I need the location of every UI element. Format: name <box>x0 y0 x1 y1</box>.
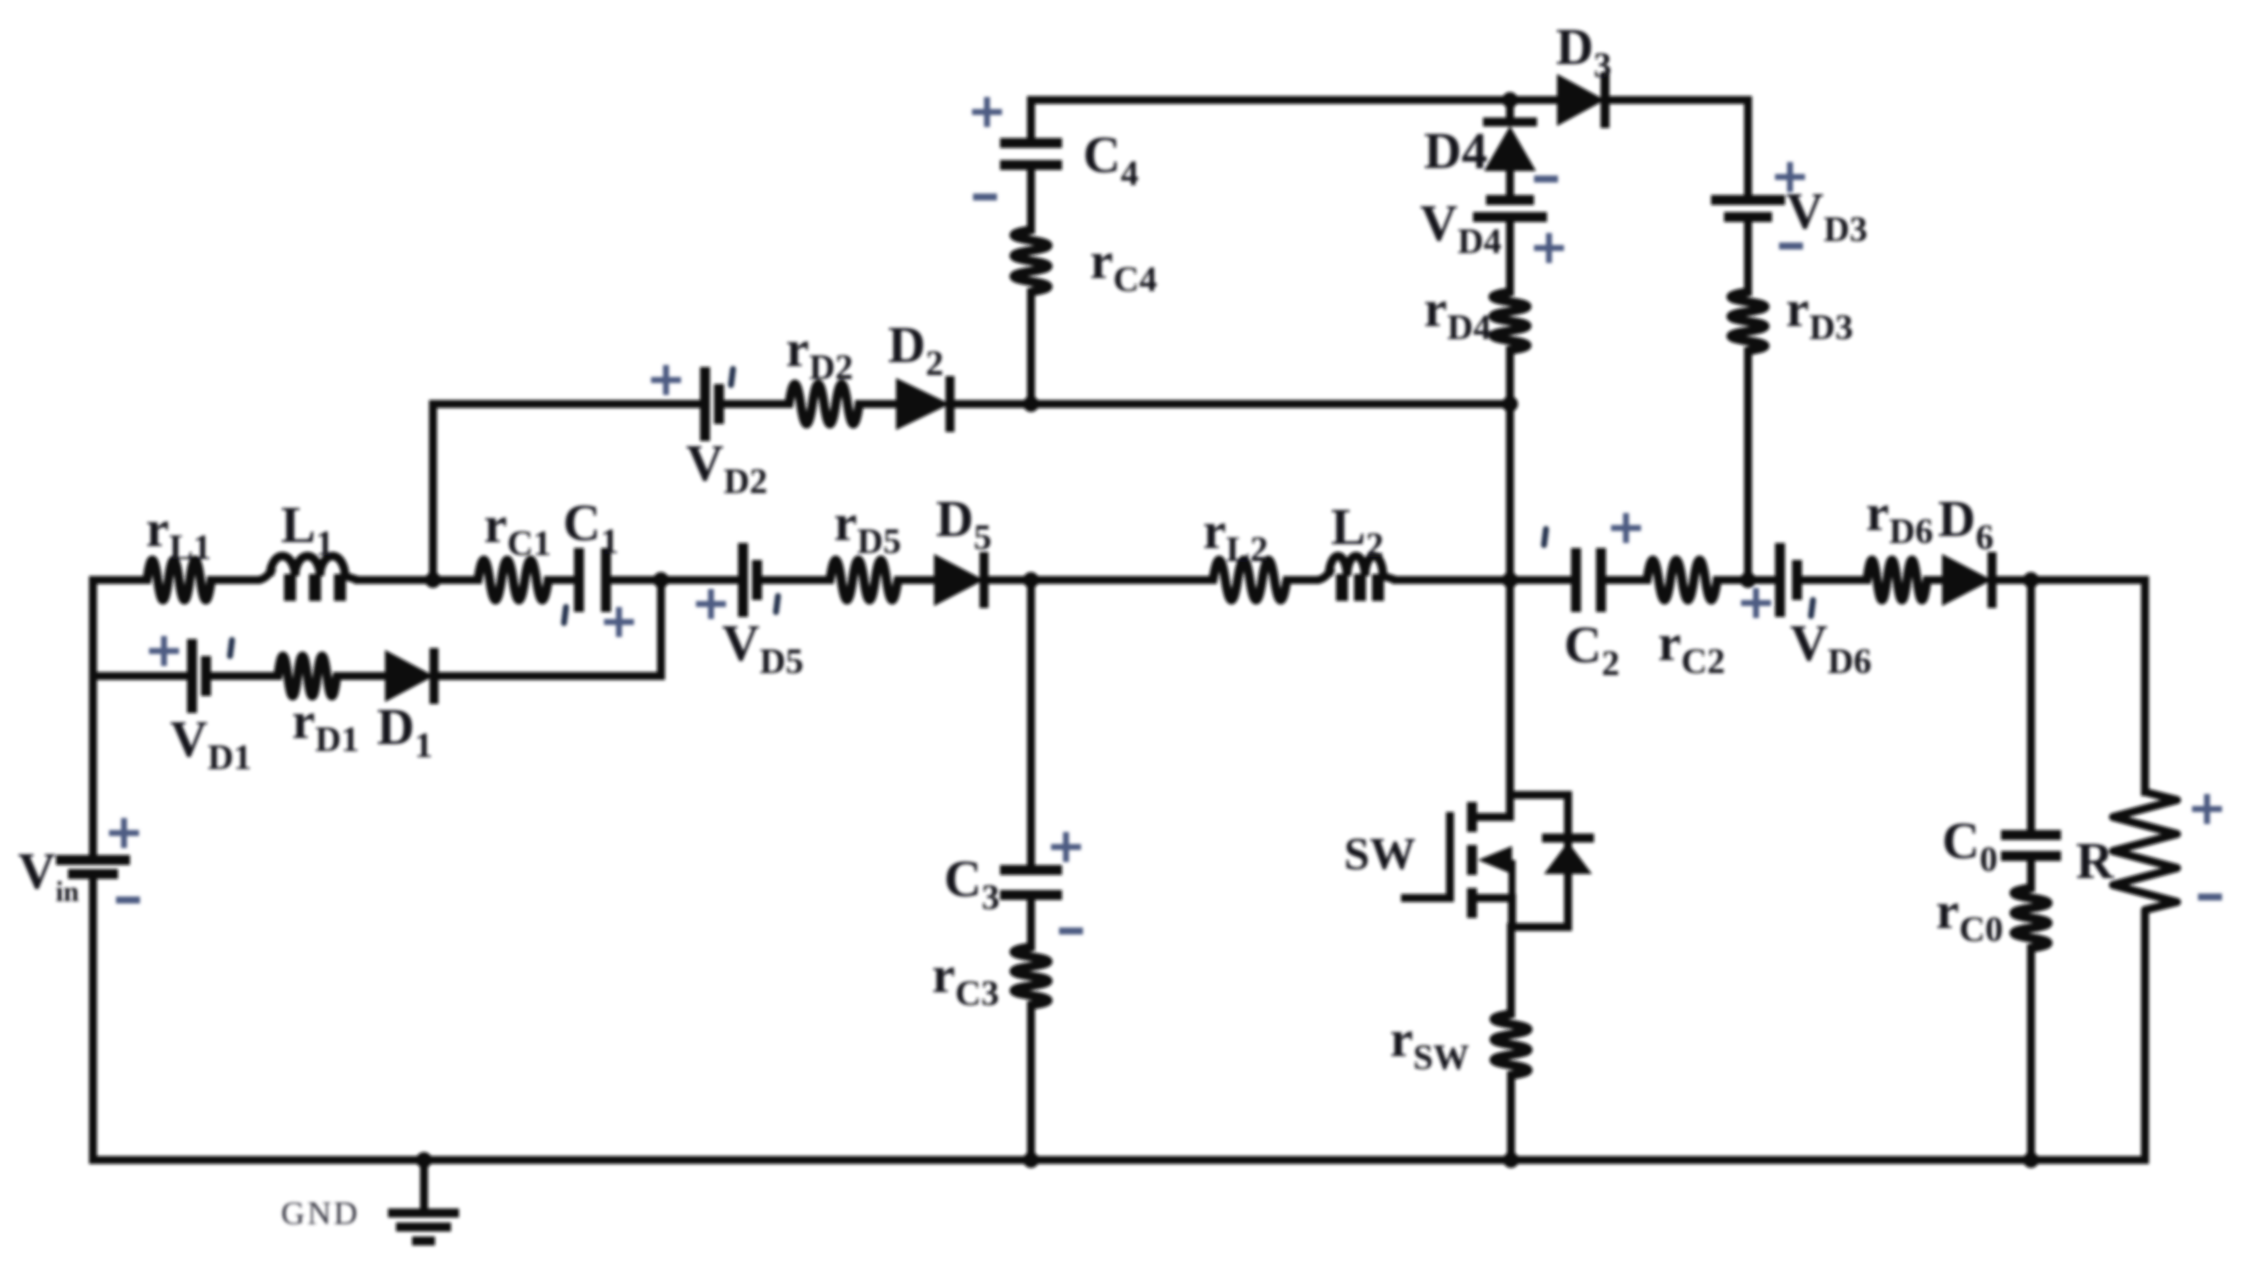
rC1 label <box>484 497 551 563</box>
rC0 label <box>1936 883 2003 949</box>
rD1 label <box>292 693 359 759</box>
wire C0 to rC0 <box>2027 856 2035 888</box>
capacitor C2 <box>1576 548 1601 612</box>
rC3 label <box>932 947 999 1013</box>
wire main right end <box>2031 576 2145 584</box>
svg-text:SW: SW <box>1344 828 1416 879</box>
rL1 label <box>146 501 211 567</box>
VD4 label <box>1420 195 1502 261</box>
C3 plus mark <box>1051 832 1081 862</box>
VD1 prime mark <box>230 640 232 656</box>
wire L2 to SW column <box>1396 576 1510 584</box>
VD3 minus mark <box>1779 243 1803 250</box>
VD6 plus mark <box>1741 588 1771 618</box>
resistor rD4 <box>1493 292 1527 350</box>
VD6 prime mark <box>1811 600 1813 616</box>
wire D5 to C4 column <box>984 576 1031 584</box>
rC2 label <box>1658 615 1725 681</box>
wire main center segment <box>1031 576 1213 584</box>
wire C2 to rC2 <box>1601 576 1647 584</box>
battery VD6 <box>1780 543 1797 617</box>
wire D6 to C0 node <box>1992 576 2031 584</box>
D6 label <box>1938 491 1994 557</box>
node junction GND tap <box>416 1152 432 1168</box>
resistor rC3 <box>1014 947 1048 1005</box>
C1 label <box>563 495 619 561</box>
C2 label <box>1564 617 1620 683</box>
VD5 label <box>722 615 804 681</box>
resistor rD6 <box>1867 560 1927 600</box>
wire rC3 to bottom <box>1027 1005 1035 1160</box>
wire VD3 column top <box>1744 100 1752 200</box>
node junction main at VD3 column <box>1740 572 1756 588</box>
battery VD3 <box>1711 200 1785 217</box>
resistor rL2 <box>1213 560 1287 600</box>
capacitor C4 <box>1000 143 1062 165</box>
D1 label <box>377 699 433 765</box>
VD2 prime mark <box>731 369 733 385</box>
resistor rC1 <box>478 560 548 600</box>
capacitor C1 <box>579 548 606 612</box>
wire node to VD5 <box>661 576 743 584</box>
capacitor C3 <box>1000 870 1062 895</box>
VD2 label <box>686 435 768 501</box>
wire VD3 to rD3 <box>1744 217 1752 292</box>
wire left column lower <box>89 874 97 1160</box>
rC4 label <box>1090 233 1157 299</box>
wire main to SW drain <box>1506 580 1514 817</box>
wire VD5 to rD5 <box>757 576 830 584</box>
wire D1 row left segment <box>93 672 192 680</box>
node junction bottom at C3 column <box>1023 1152 1039 1168</box>
wire node to VD6 <box>1748 576 1780 584</box>
transistor SW mosfet <box>1405 802 1512 927</box>
diode D2 <box>896 376 950 432</box>
wire rC4 to D2 row <box>1027 292 1035 404</box>
wire branch up from main line at x=433 <box>429 404 437 580</box>
diode D3 <box>1557 72 1605 128</box>
wire rL1 to L1 <box>211 576 257 584</box>
L1 label <box>281 497 334 563</box>
VD5 plus mark <box>696 589 726 619</box>
battery Vin <box>56 860 130 874</box>
svg-text:R: R <box>2076 833 2115 890</box>
wire rC0 to bottom <box>2027 948 2035 1160</box>
C0 label <box>1942 813 1998 879</box>
wire VD4 to rD4 <box>1506 217 1514 292</box>
wire rC1 to C1 <box>548 576 579 584</box>
wire C3 to rC3 <box>1027 895 1035 947</box>
wire VD2 to rD2 <box>719 400 789 408</box>
battery VD5 <box>743 543 757 617</box>
wire left column upper <box>89 580 97 860</box>
R minus mark <box>2198 894 2222 901</box>
GND label <box>281 1196 360 1232</box>
C1 prime mark <box>564 607 566 623</box>
wire rD1 to D1 <box>337 672 385 680</box>
C3 minus mark <box>1059 928 1083 935</box>
diode D4 <box>1483 122 1537 171</box>
svg-text:D4: D4 <box>1424 123 1488 180</box>
node junction main at C0 column <box>2023 572 2039 588</box>
wire D2 diode to C4 column <box>950 400 1031 408</box>
C2 plus mark <box>1611 513 1641 543</box>
L2 label <box>1331 499 1384 565</box>
SW label <box>1344 828 1416 879</box>
rD3 label <box>1786 281 1853 347</box>
wire bottom rail <box>93 1156 2145 1164</box>
wire rC2 to VD3 node <box>1717 576 1748 584</box>
resistor rSW <box>1494 1014 1528 1075</box>
C1 plus mark <box>604 607 634 637</box>
node junction main at branch x=433 <box>425 572 441 588</box>
rD6 label <box>1866 485 1933 551</box>
rD2 label <box>786 321 853 387</box>
svg-text:GND: GND <box>281 1196 360 1232</box>
inductor L2 <box>1316 556 1396 601</box>
wire main to C3 <box>1027 580 1035 870</box>
VD3 plus mark <box>1775 162 1805 192</box>
node junction bottom at SW column <box>1503 1152 1519 1168</box>
wire top junction to D4 bar <box>1506 100 1514 120</box>
rD4 label <box>1424 281 1491 347</box>
resistor rD3 <box>1731 292 1765 351</box>
wire D4 to VD4 <box>1506 171 1514 200</box>
wire C4 column top <box>1027 100 1035 143</box>
D5 label <box>936 491 992 557</box>
resistor rD5 <box>830 560 898 600</box>
C4 plus mark <box>972 97 1002 127</box>
wire C4 to rC4 <box>1027 165 1035 230</box>
wire rD2 to D2 diode <box>859 400 896 408</box>
wire main left end <box>93 576 147 584</box>
ground GND symbol <box>388 1160 459 1241</box>
VD4 plus mark <box>1534 233 1564 263</box>
R plus mark <box>2192 794 2222 824</box>
wire rSW to bottom <box>1507 1075 1515 1160</box>
wire rD3 to main line <box>1744 351 1752 580</box>
wire L1 to branch <box>358 576 433 584</box>
wire rD5 to D5 <box>898 576 934 584</box>
battery VD2 <box>705 367 719 441</box>
wire VD1 to rD1 <box>206 672 278 680</box>
resistor rC2 <box>1647 560 1717 600</box>
battery VD1 <box>192 639 206 713</box>
VD1 label <box>170 711 252 777</box>
wire rD6 to D6 <box>1927 576 1942 584</box>
VD4 minus mark <box>1534 176 1558 183</box>
diode SW body diode <box>1542 838 1594 874</box>
wire D1 to corner <box>434 672 661 680</box>
wire rL2 to L2 <box>1287 576 1316 584</box>
inductor L1 <box>257 556 358 601</box>
wire top rail left segment (C4 top to D3) <box>1031 96 1557 104</box>
rSW label <box>1390 1011 1469 1077</box>
wire body diode branch <box>1510 795 1568 927</box>
C4 label <box>1083 127 1139 193</box>
node junction main at x=661 <box>653 572 669 588</box>
capacitor C0 <box>2001 835 2061 856</box>
diode D1 <box>385 648 434 704</box>
battery VD4 <box>1473 200 1547 217</box>
Vin minus mark <box>116 897 140 904</box>
wire main to C0 <box>2027 580 2035 835</box>
wire C1 to node <box>606 576 661 584</box>
wire top rail right segment (D3 to V_D3 corner) <box>1605 96 1748 104</box>
wire D4 column D2 row to main <box>1506 404 1514 580</box>
wire SW column to C2 <box>1510 576 1576 584</box>
diode D5 <box>934 552 984 608</box>
wire D2 row left segment <box>433 400 700 408</box>
resistor rC0 <box>2014 888 2048 948</box>
D3 label <box>1556 19 1612 85</box>
node junction D2 row at D4 column <box>1502 396 1518 412</box>
VD3 label <box>1786 183 1868 249</box>
resistor rD2 <box>789 384 859 424</box>
rD5 label <box>834 495 901 561</box>
C2 prime mark <box>1544 529 1546 545</box>
wire rD4 to D2 row <box>1506 350 1514 404</box>
VD5 prime mark <box>776 596 778 612</box>
D2 label <box>888 317 944 383</box>
wire D2 row right segment <box>1031 400 1510 408</box>
wire branch to rC1 <box>433 576 478 584</box>
Vin plus mark <box>109 818 139 848</box>
resistor rD1 <box>278 656 337 696</box>
resistor R load <box>2113 792 2177 923</box>
wire R to bottom corner <box>2141 923 2149 1160</box>
node junction bottom at C0 column <box>2023 1152 2039 1168</box>
C3 label <box>944 851 1000 917</box>
node junction main at SW column <box>1502 572 1518 588</box>
wire D1 row up to main <box>657 580 665 676</box>
D4 label <box>1424 123 1488 180</box>
rL2 label <box>1203 503 1268 569</box>
R label <box>2076 833 2115 890</box>
wire SW source to rSW <box>1507 927 1515 1014</box>
VD6 label <box>1790 615 1872 681</box>
resistor rC4 <box>1014 230 1048 292</box>
VD2 plus mark <box>651 365 681 395</box>
VD1 plus mark <box>149 636 179 666</box>
diode D6 <box>1942 552 1992 608</box>
wire VD6 to rD6 <box>1797 576 1867 584</box>
node junction main at C4 column <box>1023 572 1039 588</box>
resistor rL1 <box>147 560 211 600</box>
C4 minus mark <box>973 194 997 201</box>
node junction D2 row at C4 column <box>1023 396 1039 412</box>
wire main corner down to R <box>2141 580 2149 792</box>
node junction top of D4 column <box>1502 92 1518 108</box>
Vin label <box>18 843 79 908</box>
